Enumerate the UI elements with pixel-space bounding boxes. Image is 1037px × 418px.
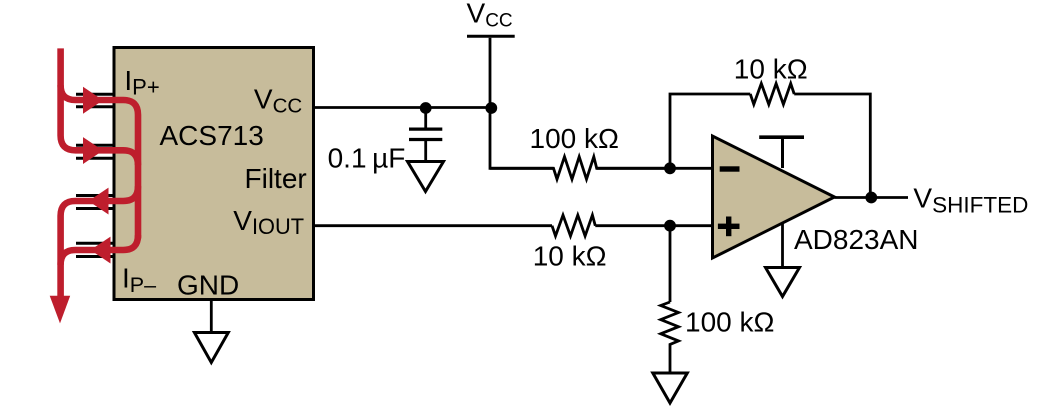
svg-text:GND: GND — [177, 270, 239, 301]
svg-text:Filter: Filter — [245, 163, 307, 194]
arrowhead into pin2 — [83, 137, 103, 164]
svg-text:0.1 µF: 0.1 µF — [328, 143, 406, 174]
pin 1 IP+ stub — [76, 94, 114, 107]
ground below R4 — [653, 373, 688, 403]
feedback wire with R3 — [670, 94, 750, 168]
node junction dot output — [865, 192, 877, 204]
output wire — [835, 196, 909, 199]
capacitor C1 0.1uF — [409, 108, 442, 162]
pin 4 IP- stub — [76, 243, 114, 256]
feedback wire right side down to output — [794, 94, 870, 198]
wire VIOUT to 10k resistor — [315, 224, 552, 227]
arrowhead out of pin3 — [89, 188, 109, 215]
node junction dot inverting input — [664, 162, 676, 174]
node junction dot non-inverting input — [664, 220, 676, 232]
svg-text:10 kΩ: 10 kΩ — [533, 241, 607, 272]
chip GND stub — [210, 299, 213, 333]
ground below capacitor — [408, 162, 444, 192]
arrowhead out of pin4 — [91, 237, 111, 264]
resistor R2 10k horizontal — [552, 215, 595, 236]
arrowhead into pin1 — [83, 87, 103, 114]
resistor R1 100k horizontal — [490, 157, 670, 180]
wire 10k resistor to op-amp non-inverting input — [595, 224, 712, 227]
op-amp U2 triangle — [713, 136, 835, 258]
wire VCC vertical down and left corner to 100k — [490, 38, 554, 169]
svg-text:ACS713: ACS713 — [160, 120, 264, 151]
wire red pin4 exit merge — [61, 235, 138, 265]
node junction dot at cap — [420, 102, 432, 114]
IC U1 ACS713 body — [114, 48, 314, 300]
VCC supply bar — [467, 35, 515, 38]
op-amp ground stub — [781, 224, 784, 268]
ground below chip — [194, 333, 228, 363]
wire red pin3 exit + bottom outer trunk — [61, 186, 138, 296]
wire red pin1 entry + inner trunk — [61, 85, 138, 238]
resistor R3 10k feedback — [750, 84, 794, 105]
wire down to R4 — [669, 226, 672, 302]
svg-text:100 kΩ: 100 kΩ — [530, 123, 619, 154]
ground below op-amp — [766, 268, 800, 297]
op-amp power stub — [781, 137, 784, 168]
op-amp power bar — [759, 135, 804, 139]
svg-text:10 kΩ: 10 kΩ — [734, 53, 808, 84]
wire VCC pin to supply node — [315, 106, 490, 109]
op-amp plus sign — [718, 217, 740, 237]
wire red outer trunk + pin2 entry — [61, 48, 138, 296]
node junction dot at VCC wire — [485, 102, 497, 114]
svg-text:AD823AN: AD823AN — [794, 224, 919, 255]
resistor R4 100k vertical — [661, 302, 679, 373]
arrowhead current exit down — [50, 296, 70, 324]
svg-text:100 kΩ: 100 kΩ — [685, 307, 774, 338]
pin 3 IP- stub — [76, 196, 114, 209]
wire 100k to op-amp inverting input — [597, 167, 713, 170]
op-amp minus sign — [720, 166, 740, 171]
pin 2 IP+ stub — [76, 145, 114, 158]
